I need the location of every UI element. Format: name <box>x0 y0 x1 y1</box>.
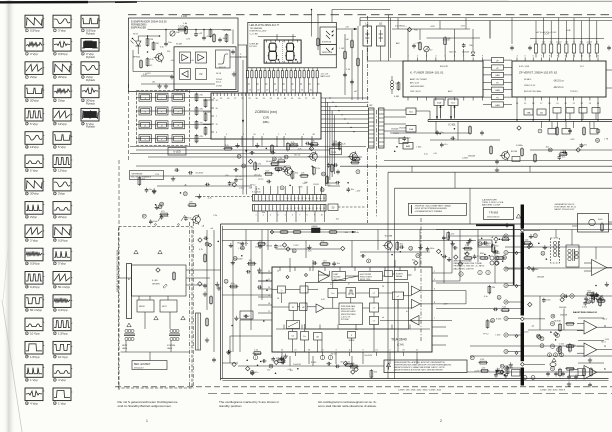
opamp left circles col <box>540 337 544 341</box>
capacitor C671 left-of-TEA <box>244 315 246 319</box>
svg-text:U-LED: U-LED <box>173 151 180 154</box>
resistor R767 bottom-right strip <box>480 361 487 364</box>
svg-text:1N4148: 1N4148 <box>537 276 545 278</box>
video opamp tri <box>592 260 607 276</box>
svg-text:0,5Vpp: 0,5Vpp <box>30 262 40 266</box>
wire above TEA h0 <box>270 231 356 233</box>
resistor R691 right-of-TEA upper <box>502 238 509 241</box>
right area h wire 7 <box>436 308 524 310</box>
resistor R501 band <box>271 145 274 152</box>
test circle band <box>356 170 360 174</box>
svg-text:SENSE: SENSE <box>349 340 356 342</box>
svg-text:1N4148: 1N4148 <box>560 315 568 317</box>
test circle band <box>242 164 246 168</box>
svg-text:29507-469.02: 29507-469.02 <box>487 217 500 219</box>
coupling filter box F6 <box>492 95 504 100</box>
test circle band <box>284 155 288 159</box>
capacitor C724 right-of-TEA mid2 <box>584 297 588 299</box>
test point TP159 below-TEA <box>351 370 355 374</box>
LE box 2 <box>377 26 386 46</box>
LED display module frame <box>264 40 301 63</box>
output opamp U2 feedback <box>578 340 604 342</box>
svg-text:6 LED: 6 LED <box>152 280 158 282</box>
svg-text:100n: 100n <box>223 38 227 40</box>
svg-text:standby position.: standby position. <box>219 404 242 408</box>
svg-text:UHF/VHF BER.: UHF/VHF BER. <box>410 86 425 88</box>
svg-text:1N4148: 1N4148 <box>468 155 476 157</box>
keyboard resistors 3 <box>204 100 207 107</box>
svg-text:0,2Vpp: 0,2Vpp <box>30 285 40 289</box>
test circle left-of-bar strip <box>497 295 501 299</box>
svg-text:+5V: +5V <box>345 27 349 29</box>
test circle right-of-TEA mid2 <box>599 297 603 301</box>
svg-text:(CSF): (CSF) <box>263 117 270 120</box>
main bottom frame top <box>221 223 612 225</box>
TEA left pins <box>258 272 272 274</box>
ZF bottom box row 3 <box>553 108 561 114</box>
output opamp U3 <box>584 366 597 380</box>
resistor R565 band-left <box>161 213 168 216</box>
IR right pin wire <box>230 56 238 58</box>
resistor R661 below-TEA <box>278 360 285 363</box>
LED pin resistor row <box>247 71 249 78</box>
svg-text:13: 13 <box>297 208 299 210</box>
LED diode box 1 <box>320 27 336 45</box>
CPU IC bottom pin ticks <box>224 136 226 139</box>
svg-text:TON 5,5: TON 5,5 <box>570 91 579 93</box>
svg-text:SEL.: SEL. <box>334 279 339 281</box>
svg-text:GETRENNT: GETRENNT <box>132 174 144 176</box>
svg-text:Flyback: Flyback <box>86 78 96 82</box>
junction dot mid-right <box>396 146 398 148</box>
capacitor C740 right-of-TEA lower mid <box>564 295 566 299</box>
right area v stub 6 <box>595 247 597 260</box>
TEA extra wire 1 <box>286 289 301 291</box>
coupling filter box F4 <box>492 80 504 85</box>
svg-text:8: 8 <box>280 198 281 200</box>
ground symbol band-left <box>153 188 155 191</box>
svg-text:47u: 47u <box>444 144 447 146</box>
BED connect wires <box>119 277 132 279</box>
double arrow 1 <box>436 106 438 119</box>
frame-top bus 2 <box>222 240 476 242</box>
svg-text:MIKRO: MIKRO <box>139 306 145 308</box>
svg-text:C 612: C 612 <box>559 344 565 346</box>
resistor R752 right-of-bar extra <box>569 345 572 352</box>
svg-text:+12V: +12V <box>570 139 575 141</box>
board boundary dash vertical <box>367 16 369 107</box>
svg-text:LADE: LADE <box>122 347 128 350</box>
test point TP138 pre-TEA band <box>282 243 286 247</box>
svg-text:Flyback: Flyback <box>86 32 96 36</box>
CPU IC ZC89504 body <box>211 93 321 139</box>
right area h wire 10 <box>470 355 612 357</box>
svg-text:20Vpp: 20Vpp <box>58 215 67 219</box>
TEA top inner wire <box>346 275 359 277</box>
resistor R630 pre-TEA band <box>321 243 328 246</box>
svg-text:TIEFPASS: TIEFPASS <box>222 29 232 32</box>
LED board border <box>248 22 336 67</box>
junction dot right-of-TEA upper <box>489 255 491 257</box>
capacitor C643 below-TEA <box>251 371 255 373</box>
band wire h4 <box>148 156 362 158</box>
svg-text:16: 16 <box>308 208 310 210</box>
capacitor C616 pre-TEA band <box>241 242 245 244</box>
capacitor C649 below-TEA <box>336 365 338 369</box>
svg-text:+33V: +33V <box>430 26 435 28</box>
waveform oscillogram box W12 <box>81 85 99 98</box>
test point TP257 left-of-bar strip <box>494 261 498 265</box>
svg-text:10: 10 <box>321 215 323 217</box>
TEA extra wire 4 <box>321 340 323 352</box>
svg-text:47u: 47u <box>245 243 248 245</box>
waveform oscillogram box W29 <box>53 272 71 285</box>
TEA inner wires <box>298 306 300 308</box>
svg-text:TP 12: TP 12 <box>258 179 264 181</box>
resistor R609 pre-TEA band <box>396 243 399 250</box>
band wire h7 <box>157 185 252 187</box>
svg-text:TP 12: TP 12 <box>427 50 433 52</box>
capacitor C531 band <box>250 151 252 155</box>
TEA bottom box wires <box>292 339 294 352</box>
ground symbol pre-TEA band <box>232 260 234 263</box>
frame-top bus 1 <box>222 229 520 231</box>
capacitor C545 band <box>327 164 331 166</box>
svg-text:0,1u: 0,1u <box>442 257 446 259</box>
svg-text:+12V: +12V <box>485 245 491 247</box>
above TEA h0 parts <box>270 230 274 234</box>
resistor R542 <box>357 59 360 66</box>
svg-text:1,5k: 1,5k <box>482 367 486 369</box>
svg-text:BAUST. 29504-102.87: BAUST. 29504-102.87 <box>555 208 576 211</box>
test circle pre-TEA band <box>409 246 413 250</box>
ground symbol right-of-TEA upper <box>467 240 469 243</box>
svg-text:ABGLEICH UND: ABGLEICH UND <box>341 308 355 311</box>
svg-text:5k6: 5k6 <box>565 42 568 44</box>
svg-text:2: 2 <box>258 198 259 200</box>
LE box 1 <box>363 26 372 46</box>
wire above TEA h2 <box>360 251 430 253</box>
resistor R520 band <box>333 143 340 146</box>
capacitor C702 right-of-TEA upper <box>484 241 486 245</box>
svg-text:austast: austast <box>586 41 592 44</box>
capacitor C571 band-left <box>160 216 164 218</box>
svg-text:E: E <box>128 277 130 281</box>
mid dash-dot boundary 2 <box>376 110 378 218</box>
svg-text:12Vpp: 12Vpp <box>30 145 39 149</box>
TEA extra box q1 <box>278 286 286 293</box>
svg-text:4 Vpp: 4 Vpp <box>58 378 66 382</box>
svg-text:TR 665: TR 665 <box>489 211 499 215</box>
junction dot left-of-bar strip <box>484 257 486 259</box>
keyboard boundary <box>137 91 190 146</box>
junction dot mid-right <box>454 128 456 130</box>
svg-text:IS 20E: IS 20E <box>176 44 183 46</box>
resistor R612 <box>146 59 149 66</box>
ground symbol bed-mid <box>218 286 220 289</box>
BED name box <box>132 361 167 370</box>
svg-text:11: 11 <box>290 198 292 200</box>
test point TP245 right-of-bar extra <box>554 332 558 336</box>
svg-text:2: 2 <box>440 419 442 423</box>
svg-text:KONTROLL-LED: KONTROLL-LED <box>250 31 267 33</box>
test circle band <box>320 188 324 192</box>
wire 501a to mid <box>416 110 430 112</box>
IR pin4 stub <box>238 56 247 58</box>
svg-text:10n: 10n <box>562 157 565 159</box>
keyboard resistors <box>195 94 198 101</box>
svg-text:5: 5 <box>285 215 286 217</box>
svg-text:17: 17 <box>312 198 314 200</box>
ground symbol right-of-TEA mid <box>544 245 546 248</box>
svg-text:2Vpp: 2Vpp <box>58 192 65 196</box>
svg-text:1-KNR / 182 / 1828 / 4031 / 40: 1-KNR / 182 / 1828 / 4031 / 4034 / 1-KNR… <box>398 390 442 392</box>
waveform oscillogram box W1 <box>25 15 43 28</box>
svg-text:8,2k: 8,2k <box>231 283 235 285</box>
junction dot band <box>258 168 260 170</box>
ground symbol pre-TEA band <box>259 244 261 247</box>
svg-text:1: 1 <box>146 419 148 423</box>
svg-text:100u/16: 100u/16 <box>449 52 457 54</box>
capacitor C712 right-of-TEA upper <box>453 246 455 250</box>
mid right parts <box>469 127 472 134</box>
TEA right opamp 1 <box>412 286 421 295</box>
wire mid v2 <box>357 26 359 100</box>
inner risers bottom frame <box>245 230 247 247</box>
transistor T611 <box>156 54 164 62</box>
svg-text:7: 7 <box>216 116 217 118</box>
TEA start box <box>289 303 298 311</box>
waveform oscillogram box W36 <box>25 365 43 378</box>
svg-text:R642: R642 <box>480 253 484 255</box>
ground symbol bottom-right strip <box>505 373 507 376</box>
TEA IC body <box>272 267 432 352</box>
svg-text:5 Vpp: 5 Vpp <box>30 168 38 172</box>
IR extra cap C616 <box>218 38 222 40</box>
LE wires down <box>366 46 368 61</box>
svg-text:3: 3 <box>261 208 262 210</box>
test point TP160 below-TEA <box>246 366 250 370</box>
junction dot right-of-TEA mid2 <box>596 298 598 300</box>
IR hybrid cell amp3 <box>180 69 191 80</box>
svg-text:330: 330 <box>580 42 583 44</box>
svg-text:1 L06: 1 L06 <box>181 15 188 18</box>
junction dot left-of-bar strip <box>502 260 504 262</box>
below-TEA rail <box>238 365 384 367</box>
svg-text:4: 4 <box>265 198 266 200</box>
wire tuner top rail <box>427 37 481 39</box>
demo box right <box>478 240 492 247</box>
test point TP152 below-TEA <box>343 361 347 365</box>
waveform oscillogram box W25 <box>53 225 71 238</box>
capacitor C628 pre-TEA band <box>443 255 445 259</box>
svg-text:mit 29504-...: mit 29504-... <box>395 25 408 28</box>
svg-text:+12V: +12V <box>443 304 448 306</box>
capacitor C580 band-left <box>145 189 149 191</box>
svg-text:10: 10 <box>286 198 288 200</box>
bus wires LED board to CPU IC <box>247 78 249 93</box>
waveform oscillogram box W32 <box>25 318 43 331</box>
test circle pre-TEA band <box>416 254 420 258</box>
capacitor C676 left-of-TEA <box>247 270 249 274</box>
resistor R516 band <box>272 163 279 166</box>
svg-text:1M: 1M <box>156 43 159 45</box>
right corner box <box>578 214 609 233</box>
long wire pair v1 <box>242 60 244 195</box>
band wire h2 <box>136 149 330 151</box>
TEA opamp A1 <box>319 271 329 282</box>
svg-text:(MBL): (MBL) <box>263 121 270 124</box>
black bar segment 4 <box>521 368 524 386</box>
svg-text:18: 18 <box>316 198 318 200</box>
test circle right-of-bar extra <box>536 334 540 338</box>
mid right h wire c <box>530 149 612 151</box>
svg-text:0,5Vpp: 0,5Vpp <box>58 238 68 242</box>
ground symbol right-of-TEA mid <box>532 267 534 270</box>
svg-text:1k: 1k <box>573 42 575 44</box>
transistor T620 <box>385 242 393 250</box>
waveform oscillogram box W23 <box>53 202 71 215</box>
pot P611 <box>170 31 175 36</box>
resistor R562 band-left <box>138 178 141 185</box>
svg-text:4,7k: 4,7k <box>257 164 261 166</box>
transistor T520 <box>310 153 318 161</box>
junction dot left-of-TEA <box>257 364 259 366</box>
top page edge line <box>0 1 88 4</box>
LED digit 8 left <box>269 43 276 51</box>
TEA inner bus low <box>276 328 430 330</box>
svg-text:0,5Vpp: 0,5Vpp <box>30 29 40 33</box>
resistor R775 bottom-right strip <box>496 371 503 374</box>
ground symbol below-TEA <box>281 356 283 359</box>
svg-text:47k: 47k <box>200 122 203 124</box>
svg-text:2k2: 2k2 <box>550 42 553 44</box>
svg-text:12Vpp: 12Vpp <box>58 168 67 172</box>
BED boundary dash v1 <box>189 222 191 390</box>
svg-text:1,5k: 1,5k <box>278 357 282 359</box>
ZF bottom box row 2 <box>537 109 546 115</box>
svg-text:50 mVpp: 50 mVpp <box>30 308 42 312</box>
connector strip V2 <box>379 108 385 148</box>
svg-text:9: 9 <box>283 198 284 200</box>
waveform oscillogram box W26 <box>25 248 43 261</box>
bar test circle wires <box>508 235 520 237</box>
frame stair v1 <box>387 172 389 379</box>
ZF bottom box row 1 <box>524 109 533 115</box>
svg-text:14: 14 <box>301 208 303 210</box>
junction dot pre-TEA band <box>241 255 243 256</box>
main board left dash <box>118 160 120 390</box>
svg-text:n 1,5k: n 1,5k <box>178 26 185 28</box>
resistor R502 band <box>338 143 341 150</box>
TEA extra box q2 <box>300 286 308 293</box>
black bar segment 2 <box>521 233 524 316</box>
svg-text:8,2k: 8,2k <box>321 241 325 243</box>
svg-text:10 Vpp: 10 Vpp <box>58 355 68 359</box>
K-TUNER body <box>403 61 483 97</box>
junction dot left-of-TEA <box>260 361 262 363</box>
svg-text:TEA 3640: TEA 3640 <box>391 338 407 342</box>
wire LED +5V <box>331 10 333 23</box>
waveform oscillogram box W9 <box>81 62 99 75</box>
svg-text:austast: austast <box>556 41 562 44</box>
wire above TEA h1 <box>276 248 340 250</box>
output opamp U1 <box>584 321 597 335</box>
svg-text:GRUEN: GRUEN <box>152 284 160 286</box>
antenna coil L1 <box>391 81 394 84</box>
junction dot below-TEA <box>246 359 248 361</box>
TEA mid box H <box>346 288 356 298</box>
waveform oscillogram box W18 <box>25 155 43 168</box>
svg-text:17: 17 <box>312 208 314 210</box>
svg-text:Flyback: Flyback <box>86 55 96 59</box>
TEA regler box <box>287 321 300 329</box>
svg-text:B: B <box>604 367 606 371</box>
bus wire top B <box>360 20 612 22</box>
transistor T523 <box>350 153 358 161</box>
connector dash left <box>195 196 252 198</box>
svg-text:+12V: +12V <box>474 370 480 372</box>
test circle left-of-TEA <box>224 279 228 283</box>
frame bottom dash 2 <box>208 392 612 394</box>
long wire pair v2 <box>245 45 247 195</box>
junction dot right-of-TEA upper <box>484 254 486 256</box>
resistor R706 right-of-TEA upper <box>447 233 450 240</box>
svg-text:10n: 10n <box>281 169 284 171</box>
svg-text:BALLPEGEL 1-KETTE: BALLPEGEL 1-KETTE <box>454 267 475 270</box>
test circle pre-TEA band <box>292 249 296 253</box>
TEA top pin stubs in <box>279 267 281 271</box>
waveform oscillogram box W16 <box>25 132 43 145</box>
TEA LT box 2 <box>370 303 379 312</box>
ground symbol right-of-TEA mid2 <box>596 292 598 295</box>
right area v stub 5 <box>571 230 573 246</box>
right area v stub 3 <box>494 247 496 283</box>
svg-text:50A: 50A <box>409 128 413 131</box>
scan streak lower-left 1 <box>2 300 22 432</box>
mid small box <box>399 138 408 144</box>
svg-text:1N4148: 1N4148 <box>559 307 567 309</box>
capacitor C737 right-of-TEA lower mid <box>592 297 594 301</box>
test circle bottom-right strip <box>470 356 474 360</box>
band wire h5 <box>136 165 290 167</box>
waveform oscillogram box W27 <box>53 248 71 261</box>
test point TP215 right-of-TEA mid <box>529 243 533 247</box>
svg-text:LE: LE <box>379 22 382 26</box>
waveform oscillogram box W8 <box>53 62 71 75</box>
TEA LT box 1 <box>370 289 379 298</box>
svg-text:R641: R641 <box>496 253 500 255</box>
svg-text:10u/16V: 10u/16V <box>531 269 539 271</box>
svg-text:5,5MHz: 5,5MHz <box>516 145 523 147</box>
resistor R725 right-of-TEA mid2 <box>591 296 594 303</box>
keyboard bottom box <box>130 171 164 180</box>
resistor R541 <box>351 41 354 48</box>
svg-text:47k: 47k <box>200 109 203 111</box>
junction dot right-of-TEA upper <box>481 237 483 239</box>
test point TP235 right-of-TEA lower mid <box>560 298 564 302</box>
capacitor C612 <box>194 33 198 35</box>
capacitor C613 <box>202 36 206 38</box>
TEA box b2 <box>385 271 393 277</box>
capacitor C558 band-left <box>189 171 191 175</box>
BED inner box row2 <box>137 300 154 312</box>
svg-text:ZC89504 (xxx): ZC89504 (xxx) <box>255 110 277 114</box>
IR gnd 1 <box>159 84 161 87</box>
svg-text:1,5k: 1,5k <box>353 156 357 158</box>
antenna circles <box>459 272 463 276</box>
svg-text:TA1.2: TA1.2 <box>602 318 608 321</box>
